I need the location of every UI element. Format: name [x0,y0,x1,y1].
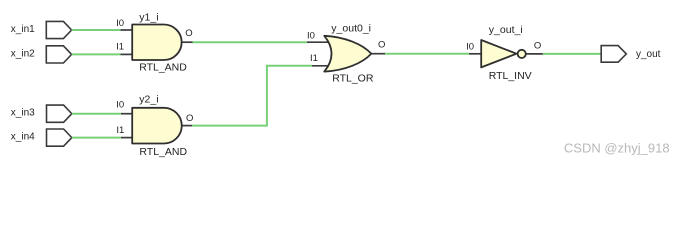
svg-text:I0: I0 [116,18,124,29]
svg-text:x_in4: x_in4 [11,132,35,143]
svg-text:I1: I1 [310,53,318,64]
svg-text:CSDN @zhyj_918: CSDN @zhyj_918 [564,141,670,156]
output port y_out [601,46,626,63]
inverter y_out_i output bubble [518,50,526,58]
wire x_in4 to y2_i I1 [72,137,121,139]
svg-text:O: O [378,40,385,51]
svg-text:y_out: y_out [636,49,661,60]
wire x_in2 to y1_i I1 [72,53,121,55]
svg-text:x_in3: x_in3 [11,108,35,119]
svg-text:y_out0_i: y_out0_i [331,23,371,35]
input port x_in1 [46,21,71,38]
or-gate y_out0_i body [324,36,371,72]
svg-text:RTL_OR: RTL_OR [332,73,374,85]
or-gate y_out0_i pin stub I1 [312,65,329,67]
svg-text:O: O [186,113,193,124]
svg-text:x_in2: x_in2 [11,48,35,59]
and-gate y1_i body [132,25,181,61]
inverter y_out_i pin stub O [526,53,543,55]
svg-text:RTL_AND: RTL_AND [139,61,187,73]
wire x_in3 to y2_i I0 [72,113,121,115]
inverter y_out_i triangle body [481,40,516,67]
inverter y_out_i pin stub I0 [469,53,481,55]
wire y_out_i O to output port [543,53,601,55]
or-gate y_out0_i pin stub O [370,53,385,55]
svg-text:y2_i: y2_i [139,93,158,105]
svg-text:O: O [534,40,541,51]
svg-text:I0: I0 [116,99,124,110]
wire y2_i O horizontal segment [192,125,267,127]
svg-text:y_out_i: y_out_i [489,24,523,36]
svg-text:I0: I0 [307,30,315,41]
wire segment to y_out0_i I1 [267,65,312,67]
and-gate y2_i pin stub I1 [121,137,132,139]
and-gate y2_i pin stub I0 [121,113,132,115]
svg-text:I1: I1 [116,42,124,53]
input port x_in3 [47,105,72,122]
input port x_in2 [46,46,71,63]
input port x_in4 [47,129,72,146]
svg-text:I1: I1 [116,125,124,136]
wire y_out0_i O to y_out_i I0 [385,53,469,55]
svg-text:x_in1: x_in1 [11,24,35,35]
and-gate y1_i pin stub O [181,41,193,43]
svg-text:RTL_INV: RTL_INV [489,70,532,82]
wire x_in1 to y1_i I0 [72,29,121,31]
and-gate y1_i pin stub I0 [121,29,133,31]
wire y2_i O vertical segment [266,65,268,127]
svg-text:RTL_AND: RTL_AND [139,146,187,158]
and-gate y1_i pin stub I1 [121,53,133,55]
svg-text:y1_i: y1_i [139,11,158,23]
or-gate y_out0_i pin stub I0 [307,41,329,43]
wire y1_i O to y_out0_i I0 [193,41,308,43]
and-gate y2_i pin stub O [181,125,193,127]
svg-text:O: O [185,28,192,39]
and-gate y2_i body [132,108,182,144]
svg-text:I0: I0 [466,41,474,52]
